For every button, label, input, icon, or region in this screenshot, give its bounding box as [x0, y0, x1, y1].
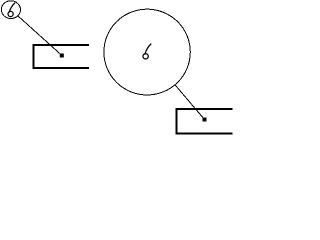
label 6 inside balloon B1: [8, 3, 15, 16]
leader line from balloon B1 to part P1: [18, 16, 62, 56]
balloon callout B2 (large circle): [104, 9, 190, 95]
part P2 outline (open rectangle, bottom right): [177, 109, 233, 134]
leader terminator square (node) at P2: [203, 118, 207, 122]
leader terminator square (node) at P1: [60, 54, 64, 58]
label 6 inside balloon B2: [143, 44, 151, 59]
leader line from balloon B2 to part P2: [175, 85, 205, 120]
balloon callout B1 (small circle): [1, 1, 20, 19]
part P1 outline (open rectangle, left): [34, 45, 90, 68]
